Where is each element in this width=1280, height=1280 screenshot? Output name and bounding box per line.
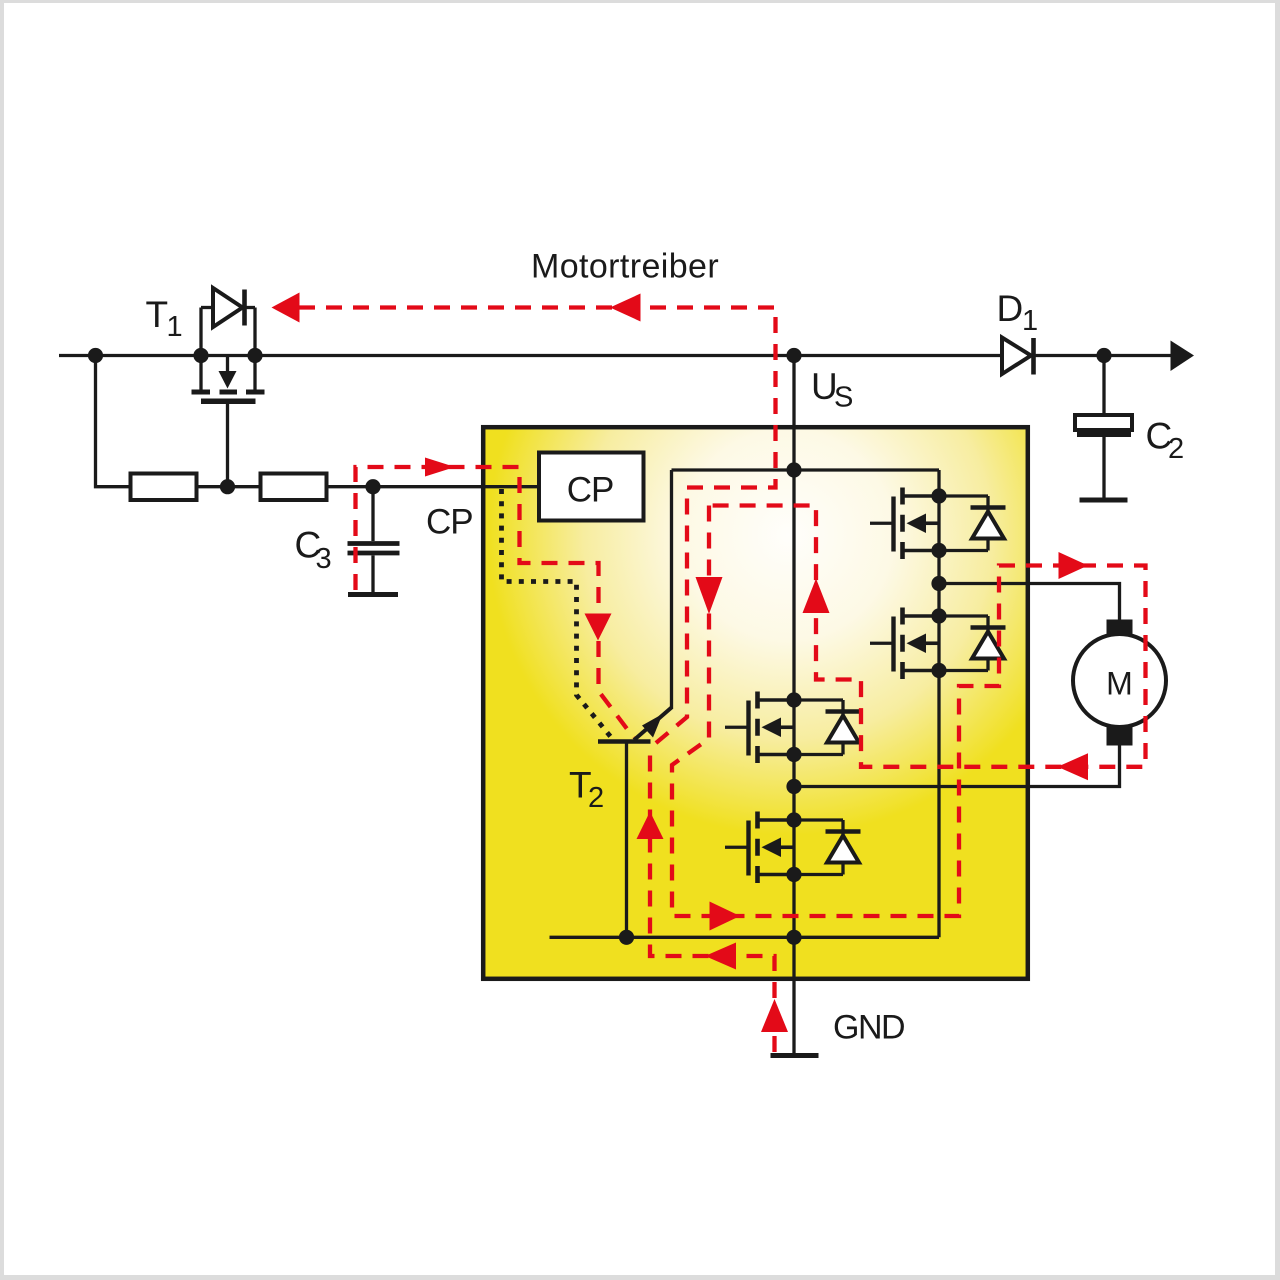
bottom emitter rail: [550, 936, 940, 939]
red loop motor current: [672, 506, 1146, 917]
wire between resistors: [197, 485, 261, 488]
MOSFET M2 (low side right): [870, 608, 1006, 680]
arrow loop left: [1058, 753, 1089, 780]
wire to motor bottom: [794, 745, 1120, 787]
MOSFET M3 (high side left): [725, 692, 861, 764]
arrow loop right top: [1059, 552, 1089, 579]
node gate T1: [220, 479, 235, 494]
arrow loop right bottom: [710, 902, 741, 931]
M1-M2 link: [937, 551, 940, 617]
resistor R2: [261, 474, 327, 501]
M2 source drop: [937, 671, 940, 938]
GND drop: [792, 937, 795, 1053]
transistor T2: [598, 470, 672, 937]
M4 source drop: [792, 875, 795, 938]
node T1 drain: [247, 348, 262, 363]
svg-text:S: S: [834, 382, 853, 414]
svg-text:3: 3: [316, 543, 332, 575]
red path charge pump drive: [356, 467, 634, 738]
ground symbol: [771, 1053, 819, 1058]
black dotted gate drive path: [502, 489, 613, 739]
svg-text:M: M: [1106, 666, 1133, 702]
arrow loop down: [696, 577, 723, 614]
arrow cp right: [425, 458, 455, 477]
node motor top: [931, 576, 946, 591]
node C3: [365, 479, 380, 494]
resistor R1: [131, 474, 197, 501]
M1 drain lead: [937, 470, 940, 496]
node left rail: [88, 348, 103, 363]
MOSFET M4 (low side left): [725, 812, 861, 884]
arrow motortreiber end: [272, 293, 300, 323]
arrow gnd up: [761, 999, 788, 1032]
charge pump block CP: [539, 453, 644, 521]
motor M: [1073, 620, 1166, 746]
svg-text:Motortreiber: Motortreiber: [531, 248, 719, 286]
red path gnd to T2: [650, 748, 775, 1052]
node motor bottom: [786, 779, 801, 794]
arrow cp down: [585, 614, 612, 641]
arrow to T2 left: [705, 943, 736, 970]
M3-M4 link: [792, 755, 795, 821]
node US inner: [786, 462, 801, 477]
main supply wire: [59, 354, 1176, 357]
top inner wire: [672, 468, 940, 471]
svg-text:CP: CP: [567, 471, 614, 510]
red path Motortreiber: [299, 308, 776, 749]
svg-text:2: 2: [1168, 433, 1184, 465]
svg-text:1: 1: [167, 311, 183, 343]
output arrow: [1171, 341, 1195, 372]
arrow loop up: [803, 579, 830, 614]
left rail wire: [96, 356, 131, 487]
motor driver IC yellow block: [483, 427, 1028, 979]
svg-text:GND: GND: [833, 1009, 904, 1047]
node T1 source: [193, 348, 208, 363]
MOSFET M1 (high side right): [870, 488, 1006, 560]
node US: [786, 348, 801, 363]
transistor T1 (p-MOSFET with parallel diode): [192, 288, 265, 487]
US supply line: [792, 356, 795, 701]
diode D1: [1002, 338, 1034, 375]
arrow motortreiber mid: [610, 294, 641, 322]
svg-text:2: 2: [588, 782, 604, 814]
svg-text:T: T: [146, 294, 169, 335]
svg-text:D: D: [997, 288, 1024, 329]
svg-text:1: 1: [1022, 305, 1038, 337]
svg-text:CP: CP: [426, 503, 473, 542]
arrow T2 up: [637, 812, 664, 840]
capacitor C3: [348, 487, 400, 595]
wire to CP input: [327, 485, 540, 488]
capacitor C2: [1075, 356, 1132, 501]
node GND rail: [786, 930, 801, 945]
node C2: [1096, 348, 1111, 363]
node T2 emitter: [619, 930, 634, 945]
wire to motor top: [939, 584, 1120, 621]
